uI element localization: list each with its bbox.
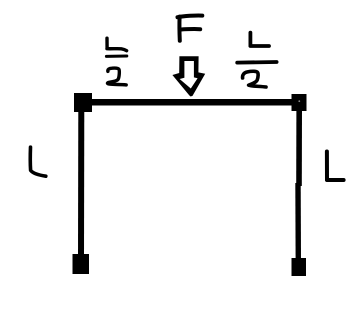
node B: top-right joint square	[292, 94, 307, 111]
wire: left column	[78, 108, 84, 257]
label L left column	[30, 147, 46, 176]
label L/2 right: 2	[243, 71, 266, 87]
label L/2 right: fraction bar	[237, 60, 276, 64]
force arrow (hollow block arrow)	[172, 56, 205, 96]
wire: right column upper segment	[296, 108, 302, 186]
node D: bottom-right support square	[292, 258, 307, 276]
label L/2 left: L	[107, 38, 127, 51]
wire: top beam	[88, 99, 296, 106]
node A: top-left joint square	[74, 93, 92, 112]
label L right column	[327, 152, 344, 181]
wire: right column lower segment	[295, 183, 301, 260]
label L/2 left: 2	[107, 68, 126, 85]
label L/2 left: fraction bar	[106, 55, 126, 58]
label L/2 right: L	[250, 33, 269, 46]
label F	[178, 15, 203, 40]
node C: bottom-left support square	[73, 254, 90, 274]
